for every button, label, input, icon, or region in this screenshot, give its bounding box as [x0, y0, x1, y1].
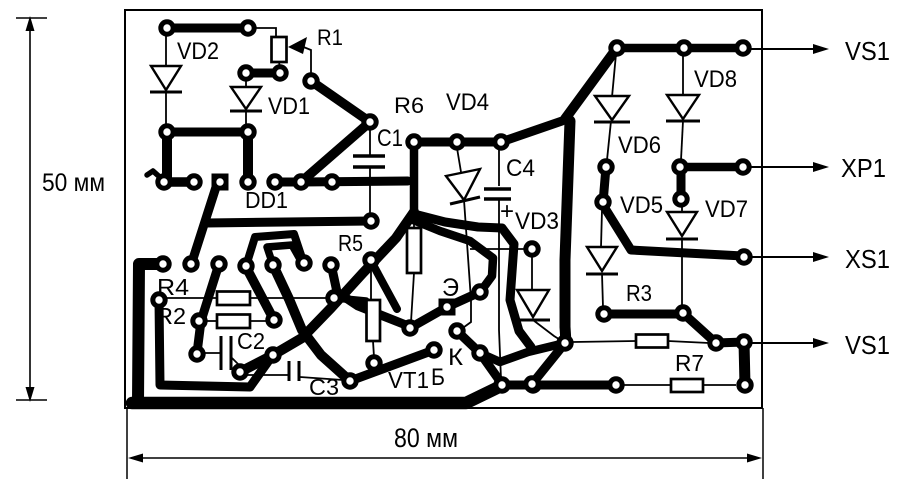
svg-text:80 мм: 80 мм	[394, 423, 458, 453]
svg-text:Э: Э	[442, 274, 459, 302]
svg-text:C4: C4	[506, 155, 535, 182]
svg-text:R2: R2	[156, 303, 186, 329]
svg-text:C2: C2	[237, 328, 265, 354]
svg-text:VD1: VD1	[268, 93, 310, 120]
svg-text:R6: R6	[394, 93, 424, 118]
svg-text:R5: R5	[338, 230, 363, 256]
svg-text:XS1: XS1	[845, 244, 890, 274]
svg-text:VD4: VD4	[446, 89, 489, 116]
svg-text:R3: R3	[626, 280, 652, 306]
svg-text:+: +	[500, 198, 514, 225]
svg-text:VD7: VD7	[705, 196, 748, 223]
svg-text:VD6: VD6	[618, 132, 661, 159]
svg-text:Б: Б	[431, 364, 445, 391]
svg-text:C3: C3	[309, 374, 339, 400]
svg-text:50 мм: 50 мм	[42, 169, 105, 197]
svg-text:VS1: VS1	[845, 330, 890, 360]
svg-text:К: К	[448, 344, 463, 371]
svg-text:XP1: XP1	[841, 153, 886, 183]
svg-text:C1: C1	[377, 125, 403, 152]
svg-text:VD3: VD3	[515, 208, 559, 235]
svg-text:R7: R7	[675, 350, 704, 376]
svg-text:R1: R1	[317, 25, 343, 50]
svg-text:VT1: VT1	[388, 367, 429, 393]
svg-text:R4: R4	[157, 274, 189, 300]
svg-text:VS1: VS1	[845, 36, 890, 66]
svg-text:VD5: VD5	[620, 192, 663, 219]
svg-text:DD1: DD1	[245, 187, 288, 213]
svg-text:VD8: VD8	[694, 66, 737, 93]
svg-text:VD2: VD2	[177, 38, 219, 65]
